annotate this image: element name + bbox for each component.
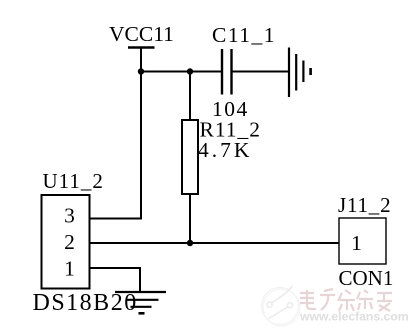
ground (earth) bottom bar 4 xyxy=(139,312,145,315)
resistor R11_2 body xyxy=(182,120,198,194)
watermark brand text (stylized) xyxy=(300,289,392,311)
ground (earth) right bar 3 xyxy=(302,61,304,83)
junction dot data net xyxy=(187,240,193,246)
wire VCC rail to capacitor xyxy=(141,71,222,73)
wire capacitor to ground xyxy=(233,71,290,73)
svg-text:1: 1 xyxy=(64,257,75,281)
svg-text:C11_1: C11_1 xyxy=(212,23,276,47)
wire pin 2 data net to connector xyxy=(90,242,340,244)
power symbol VCC11 bar xyxy=(128,46,155,49)
power symbol VCC11 stem xyxy=(140,48,142,72)
ground (earth) bottom bar 1 xyxy=(115,291,166,293)
wire pin 1 to ground xyxy=(90,268,141,292)
svg-text:2: 2 xyxy=(64,230,75,254)
svg-text:J11_2: J11_2 xyxy=(338,193,391,217)
svg-text:www.elecfans.com: www.elecfans.com xyxy=(299,310,409,324)
svg-text:3: 3 xyxy=(64,204,75,228)
connector J11_2 body xyxy=(339,218,386,264)
wire VCC rail down to pin 3 xyxy=(90,72,142,219)
ground (earth) right bar 1 xyxy=(288,48,290,98)
junction dot at resistor top branch xyxy=(187,68,193,74)
wire resistor bottom to data net xyxy=(189,194,191,243)
watermark logo trace xyxy=(272,286,293,303)
junction dot at VCC stem xyxy=(138,68,144,74)
ground (earth) bottom bar 3 xyxy=(131,306,152,308)
watermark logo circle xyxy=(262,286,301,326)
svg-text:1: 1 xyxy=(351,231,362,255)
svg-text:DS18B20: DS18B20 xyxy=(33,290,138,316)
IC U11_2 body xyxy=(42,195,90,289)
capacitor C11_1 right plate xyxy=(230,49,232,95)
svg-text:4.7K: 4.7K xyxy=(198,138,252,162)
svg-text:U11_2: U11_2 xyxy=(43,169,104,193)
ground (earth) right bar 2 xyxy=(295,54,297,91)
capacitor C11_1 left plate xyxy=(221,49,223,95)
ground (earth) bottom bar 2 xyxy=(127,299,159,301)
ground (earth) right bar 4 xyxy=(309,68,312,75)
wire junction to resistor top xyxy=(189,72,191,121)
svg-text:CON1: CON1 xyxy=(339,266,394,290)
svg-text:VCC11: VCC11 xyxy=(109,22,174,46)
